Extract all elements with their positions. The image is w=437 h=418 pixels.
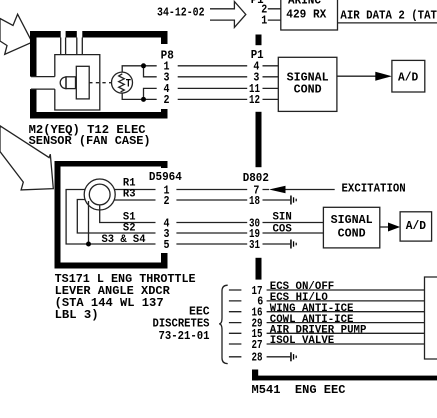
svg-text:LBL 3): LBL 3) (55, 308, 99, 322)
svg-text:T: T (126, 79, 132, 91)
svg-text:18: 18 (249, 194, 260, 208)
svg-text:A/D: A/D (398, 71, 418, 85)
svg-text:D5964: D5964 (149, 170, 182, 184)
svg-text:5: 5 (164, 238, 170, 252)
svg-text:2: 2 (164, 194, 170, 208)
svg-text:34-12-02: 34-12-02 (157, 6, 205, 20)
svg-text:COS: COS (273, 224, 293, 236)
svg-text:A/D: A/D (406, 219, 426, 233)
svg-text:COND: COND (338, 227, 366, 241)
svg-text:SIGNAL: SIGNAL (331, 213, 373, 227)
svg-text:SENSOR (FAN CASE): SENSOR (FAN CASE) (29, 134, 151, 148)
svg-text:73-21-01: 73-21-01 (159, 329, 210, 343)
svg-text:M541 ENG EEC: M541 ENG EEC (252, 383, 346, 397)
svg-text:COND: COND (294, 82, 322, 96)
svg-text:28: 28 (252, 351, 263, 365)
svg-text:SIN: SIN (273, 212, 292, 224)
svg-text:S3 & S4: S3 & S4 (102, 234, 146, 246)
svg-text:S2: S2 (123, 222, 136, 234)
svg-text:2: 2 (164, 93, 170, 107)
svg-text:R3: R3 (123, 188, 136, 200)
svg-text:AIR DATA 2 (TAT): AIR DATA 2 (TAT) (340, 9, 437, 23)
svg-text:12: 12 (249, 93, 260, 107)
svg-text:31: 31 (249, 238, 260, 252)
svg-text:EXCITATION: EXCITATION (342, 182, 406, 196)
svg-text:1: 1 (261, 14, 267, 28)
svg-text:ISOL VALVE: ISOL VALVE (270, 335, 335, 347)
svg-text:429 RX: 429 RX (286, 7, 327, 21)
